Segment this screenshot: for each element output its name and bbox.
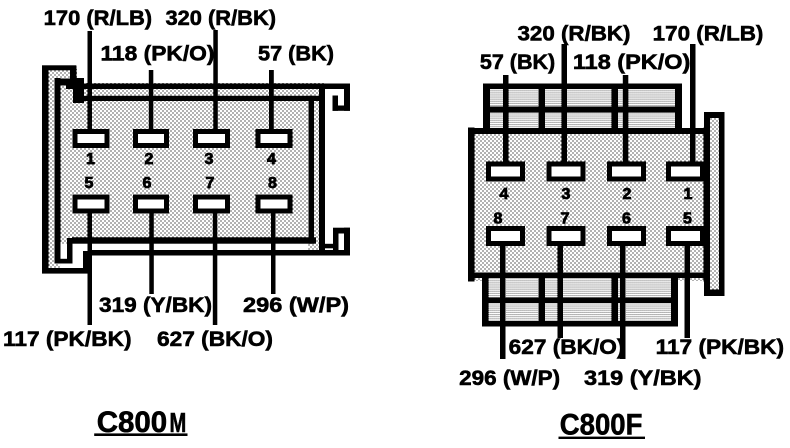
C800M top wall stub [55, 79, 85, 86]
C800F tab top edge [704, 112, 725, 118]
wire 170 (R/LB) to C800M pin 1 [88, 31, 93, 134]
C800M lower white gap band [61, 244, 309, 250]
C800M pin 6 [136, 197, 167, 211]
svg-text:C800F: C800F [560, 408, 643, 441]
C800F bottom strip divider B [612, 278, 619, 321]
C800M right edge bar [319, 84, 325, 256]
C800M outer top edge [42, 65, 76, 70]
wire 170 (R/LB) to C800F pin 1 [690, 44, 696, 166]
C800M left wall gray [42, 66, 63, 273]
C800M bottom-left outer step [83, 251, 89, 274]
svg-text:320 (R/BK): 320 (R/BK) [166, 6, 277, 30]
C800M body gray [63, 83, 325, 255]
C800M bottom hook right leg [344, 228, 350, 256]
C800M lower right bridge [320, 244, 338, 249]
C800M cavity right inner bar [309, 96, 315, 244]
C800F name underline [559, 437, 646, 439]
C800F main body outline [468, 128, 710, 282]
svg-text:7: 7 [561, 211, 570, 228]
svg-text:4: 4 [500, 186, 509, 203]
wire 118 (PK/O) to C800M pin 2 [149, 70, 154, 134]
svg-text:117 (PK/BK): 117 (PK/BK) [656, 335, 785, 359]
svg-text:118 (PK/O): 118 (PK/O) [101, 42, 215, 66]
C800F pin 8 [489, 229, 523, 244]
wire 320 (R/BK) to C800M pin 3 [213, 30, 218, 134]
svg-text:7: 7 [206, 175, 215, 192]
C800F bottom strip outline [482, 275, 678, 327]
svg-text:1: 1 [86, 151, 95, 168]
wire 57 (BK) to C800M pin 4 [269, 70, 274, 134]
C800F top strip left edge [483, 84, 490, 135]
C800F pin 1 [669, 164, 703, 179]
C800M pin 1 [75, 132, 107, 146]
svg-text:627 (BK/O): 627 (BK/O) [509, 335, 625, 359]
C800M top hook left leg [333, 96, 339, 111]
C800M outer bottom edge [42, 268, 88, 274]
C800M outer left wall bar [42, 66, 49, 274]
C800F body bottom bar [468, 273, 710, 279]
svg-text:170 (R/LB): 170 (R/LB) [653, 21, 764, 45]
C800F body left edge [468, 128, 475, 282]
C800M pin 4 [258, 132, 290, 146]
wire 118 (PK/O) to C800F pin 2 [623, 75, 629, 166]
svg-text:6: 6 [622, 211, 631, 228]
C800M top-right hook [333, 84, 351, 111]
C800M bottom hook left leg [333, 234, 339, 251]
wire C800M pin 6 to 319 (Y/BK) [149, 208, 154, 294]
C800M top-left step [70, 66, 77, 86]
svg-text:M: M [170, 407, 187, 438]
svg-text:57 (BK): 57 (BK) [258, 42, 334, 66]
C800F top strip divider A [539, 89, 546, 128]
C800M inner top bar [73, 96, 321, 101]
svg-text:4: 4 [267, 151, 276, 168]
C800F tab left lower leg [704, 273, 710, 297]
C800F top strip divider B [612, 89, 619, 128]
connector C800F bottom strip gray fill [482, 275, 678, 327]
connector C800M body gray fill [42, 66, 325, 273]
C800M pin 5 [75, 197, 107, 211]
C800F top strip outline [483, 84, 682, 135]
C800F top strip right edge [675, 84, 682, 135]
svg-text:296 (W/P): 296 (W/P) [459, 366, 560, 390]
C800F pin 2 [610, 164, 644, 179]
svg-text:2: 2 [145, 151, 154, 168]
C800F bottom strip middle line [482, 298, 678, 304]
C800M pin 2 [136, 132, 167, 146]
C800M pin 3 [196, 132, 228, 146]
connector C800F top strip gray fill [483, 84, 682, 134]
C800M bottom-left inner step [67, 238, 73, 264]
svg-text:3: 3 [562, 186, 571, 203]
svg-text:319 (Y/BK): 319 (Y/BK) [99, 293, 212, 317]
wire C800F pin 8 to 296 (W/P) [500, 242, 506, 359]
wire C800M pin 7 to 627 (BK/O) [213, 208, 218, 325]
C800M bottom wall stub [55, 259, 73, 264]
wire 57 (BK) to C800F pin 4 [503, 75, 509, 166]
C800M pin 8 [258, 197, 290, 211]
C800F top strip top edge [483, 84, 682, 90]
C800F bottom strip divider A [539, 278, 546, 321]
C800F bottom strip left edge [482, 275, 489, 327]
C800F top strip middle line [483, 107, 682, 113]
svg-text:319 (Y/BK): 319 (Y/BK) [584, 366, 702, 390]
wire C800M pin 5 to 117 (PK/BK) [88, 208, 93, 325]
C800M bottom-left white pocket [61, 244, 89, 269]
svg-text:1: 1 [684, 186, 693, 203]
C800M inner left wall bar [55, 78, 61, 262]
svg-text:118 (PK/O): 118 (PK/O) [573, 50, 690, 74]
C800M top bar [66, 84, 350, 90]
svg-text:57 (BK): 57 (BK) [480, 50, 555, 74]
C800F pin 7 [549, 229, 583, 244]
C800M bottom bar [88, 250, 351, 256]
wire C800F pin 7 to 627 (BK/O) [558, 242, 564, 338]
C800F pin 3 [549, 164, 583, 179]
C800F body right edge [704, 128, 711, 282]
connector C800F main body gray fill [468, 128, 710, 281]
C800M bottom hook top [333, 228, 350, 234]
C800M bottom-right hook [333, 228, 350, 256]
svg-text:5: 5 [85, 175, 94, 192]
connector C800M outline [42, 65, 350, 273]
C800F pin 6 [610, 229, 644, 244]
svg-text:320 (R/BK): 320 (R/BK) [518, 21, 631, 45]
wire 320 (R/BK) to C800F pin 3 [562, 44, 568, 166]
C800M top hook bottom [333, 106, 351, 111]
wire C800F pin 6 to 319 (Y/BK) [620, 242, 626, 359]
svg-text:6: 6 [143, 175, 152, 192]
C800F pin 4 [489, 164, 523, 179]
svg-text:627 (BK/O): 627 (BK/O) [157, 327, 273, 351]
svg-text:3: 3 [205, 151, 214, 168]
C800M top-left corner gray [60, 69, 77, 84]
C800F tab left upper leg [704, 112, 710, 135]
connector C800F right tab gray fill [704, 112, 724, 296]
C800M name underline [94, 433, 187, 436]
C800M pin 7 [196, 197, 228, 211]
C800M top-left inner step [73, 78, 84, 103]
C800M top hook right leg [344, 84, 350, 111]
C800F tab bottom edge [704, 290, 725, 297]
C800F bottom strip bottom edge [482, 321, 678, 327]
C800F bottom strip right edge [671, 275, 678, 327]
C800F tab right edge [719, 112, 725, 296]
svg-text:8: 8 [494, 211, 503, 228]
C800F right tab outline [704, 112, 725, 296]
C800F pin 5 [669, 229, 703, 244]
svg-text:170 (R/LB): 170 (R/LB) [44, 6, 152, 30]
svg-text:2: 2 [623, 186, 632, 203]
svg-text:117 (PK/BK): 117 (PK/BK) [3, 327, 132, 351]
wire C800F pin 5 to 117 (PK/BK) [685, 242, 691, 338]
svg-text:5: 5 [683, 211, 692, 228]
wire C800M pin 8 to 296 (W/P) [271, 208, 276, 294]
svg-text:296 (W/P): 296 (W/P) [243, 293, 349, 317]
svg-text:8: 8 [268, 175, 277, 192]
C800M inner bottom bar [72, 237, 316, 243]
C800F body top bar [468, 128, 710, 134]
